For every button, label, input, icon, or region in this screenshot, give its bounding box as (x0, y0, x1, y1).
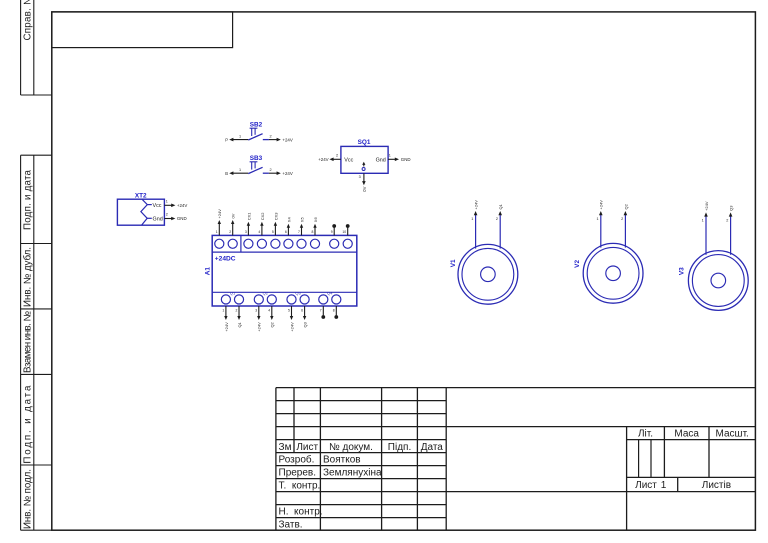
svg-text:SB3: SB3 (250, 155, 263, 162)
svg-text:Н. контр.: Н. контр. (279, 507, 323, 518)
svg-text:Q3: Q3 (729, 205, 734, 211)
svg-text:8: 8 (312, 230, 314, 234)
svg-text:Q2: Q2 (270, 321, 275, 327)
svg-text:+24V: +24V (318, 157, 328, 162)
svg-text:2: 2 (726, 218, 728, 222)
svg-text:+24V: +24V (282, 137, 292, 142)
svg-text:10: 10 (342, 230, 346, 234)
svg-text:В: В (225, 171, 228, 176)
svg-text:0V: 0V (231, 213, 236, 218)
svg-text:0V: 0V (362, 186, 367, 191)
svg-text:Взамен инв. №: Взамен инв. № (23, 311, 34, 373)
svg-text:Т. контр.: Т. контр. (279, 481, 321, 492)
svg-text:Q3: Q3 (303, 321, 308, 327)
svg-text:1: 1 (239, 135, 241, 139)
svg-text:9: 9 (331, 230, 333, 234)
svg-text:3: 3 (245, 230, 247, 234)
svg-text:+24V: +24V (282, 171, 292, 176)
svg-text:6: 6 (301, 308, 303, 312)
svg-text:+24V: +24V (257, 322, 262, 332)
svg-text:SB2: SB2 (250, 122, 263, 129)
svg-text:X4: X4 (286, 217, 291, 223)
svg-text:Q1: Q1 (498, 203, 503, 209)
svg-text:1: 1 (222, 308, 224, 312)
svg-text:Листів: Листів (702, 480, 731, 491)
svg-text:V1: V1 (450, 259, 457, 267)
svg-text:1: 1 (389, 154, 391, 158)
svg-text:1: 1 (596, 217, 598, 221)
svg-text:Маса: Маса (674, 429, 699, 440)
svg-text:4: 4 (268, 308, 270, 312)
svg-text:Пререв.: Пререв. (279, 468, 317, 479)
svg-text:Инв. № дубл.: Инв. № дубл. (23, 247, 34, 307)
svg-text:2: 2 (270, 168, 272, 172)
svg-text:Землянухіна: Землянухіна (323, 468, 382, 479)
svg-text:1: 1 (702, 218, 704, 222)
svg-text:1: 1 (216, 230, 218, 234)
svg-text:Q1: Q1 (237, 321, 242, 327)
svg-text:6: 6 (285, 230, 287, 234)
svg-text:Q4: Q4 (327, 290, 333, 295)
svg-text:A1: A1 (205, 267, 212, 276)
svg-text:Q2: Q2 (263, 290, 269, 295)
svg-text:+24V: +24V (599, 200, 604, 210)
svg-text:V2: V2 (574, 260, 581, 268)
svg-text:Подп. и дата: Подп. и дата (23, 385, 34, 464)
svg-text:+24V: +24V (224, 322, 229, 332)
svg-text:Дата: Дата (421, 442, 444, 453)
svg-text:+24DC: +24DC (215, 256, 236, 263)
svg-text:Підп.: Підп. (388, 442, 411, 453)
svg-text:GND: GND (401, 157, 411, 162)
svg-text:Vcc: Vcc (344, 157, 353, 163)
svg-text:GND: GND (177, 216, 187, 221)
svg-text:CX1: CX1 (246, 212, 251, 221)
svg-text:Воятков: Воятков (323, 455, 361, 466)
svg-text:Зм: Зм (279, 442, 292, 453)
svg-text:2: 2 (236, 308, 238, 312)
svg-text:2: 2 (229, 230, 231, 234)
svg-text:CX3: CX3 (273, 212, 278, 221)
svg-text:Затв.: Затв. (279, 520, 303, 531)
svg-text:Vcc: Vcc (153, 203, 162, 209)
svg-text:Подп. и дата: Подп. и дата (23, 169, 34, 230)
svg-text:+24V: +24V (289, 322, 294, 332)
svg-text:1: 1 (471, 217, 473, 221)
svg-text:Літ.: Літ. (638, 429, 653, 440)
svg-text:X6: X6 (313, 217, 318, 223)
svg-text:Розроб.: Розроб. (279, 454, 315, 466)
svg-text:Q3: Q3 (295, 290, 301, 295)
svg-text:Лист: Лист (635, 480, 657, 491)
svg-text:Справ. №: Справ. № (23, 0, 34, 41)
svg-text:2: 2 (336, 154, 338, 158)
svg-text:Лист: Лист (296, 442, 318, 453)
svg-text:SQ1: SQ1 (358, 139, 371, 146)
svg-text:5: 5 (288, 308, 290, 312)
svg-text:CX2: CX2 (260, 212, 265, 221)
svg-text:X5: X5 (299, 217, 304, 223)
svg-text:+24V: +24V (217, 209, 222, 219)
svg-text:Инв. № подл.: Инв. № подл. (23, 469, 34, 529)
svg-text:Q2: Q2 (623, 203, 628, 209)
svg-text:8: 8 (333, 308, 335, 312)
svg-text:№ докум.: № докум. (329, 442, 373, 453)
svg-text:7: 7 (320, 308, 322, 312)
svg-text:Gnd: Gnd (153, 217, 163, 223)
svg-text:3: 3 (255, 308, 257, 312)
svg-text:Масшт.: Масшт. (716, 429, 749, 440)
svg-text:2: 2 (621, 217, 623, 221)
svg-text:Р: Р (225, 137, 228, 142)
svg-text:1: 1 (239, 168, 241, 172)
svg-text:2: 2 (270, 135, 272, 139)
svg-text:1: 1 (661, 480, 667, 491)
svg-text:V3: V3 (678, 267, 685, 275)
svg-text:1: 1 (166, 200, 168, 204)
svg-text:4: 4 (258, 230, 260, 234)
svg-text:5: 5 (272, 230, 274, 234)
svg-text:2: 2 (166, 213, 168, 217)
svg-text:+24V: +24V (474, 200, 479, 210)
svg-text:+24V: +24V (177, 203, 187, 208)
svg-text:Q1: Q1 (230, 290, 236, 295)
svg-text:2: 2 (496, 217, 498, 221)
svg-text:Gnd: Gnd (376, 157, 386, 163)
svg-text:3: 3 (359, 175, 361, 179)
svg-text:7: 7 (298, 230, 300, 234)
svg-text:+24V: +24V (704, 201, 709, 211)
